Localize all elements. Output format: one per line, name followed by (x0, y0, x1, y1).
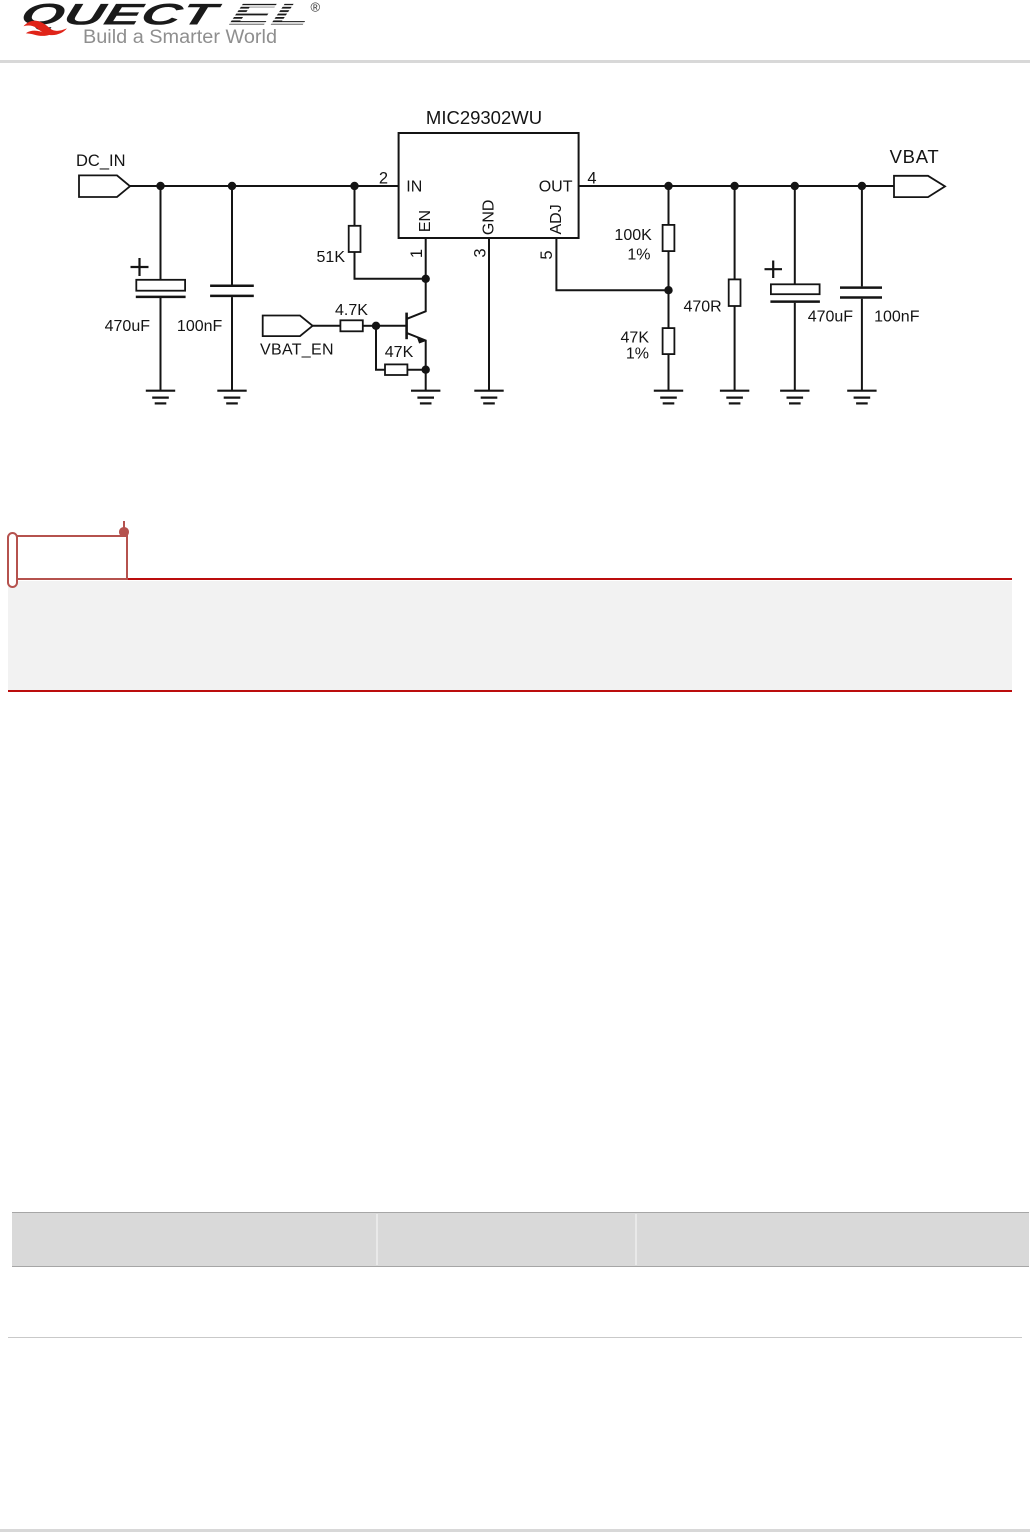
grey band (8, 581, 1012, 690)
svg-text:51K: 51K (317, 249, 346, 266)
wire main input net (130, 185, 399, 187)
svg-text:47K: 47K (621, 330, 650, 347)
resistor R1 51K (317, 186, 426, 279)
resistor R6 470R (683, 186, 740, 390)
svg-text:ADJ: ADJ (548, 204, 565, 234)
resistor R5 47K 1% (621, 290, 675, 390)
pin number 2 (379, 170, 388, 188)
port DC_IN (76, 152, 130, 197)
op-amp U1 MIC29302WU body (399, 107, 579, 238)
svg-text:5: 5 (538, 250, 556, 259)
ground (654, 391, 683, 404)
svg-text:3: 3 (472, 248, 490, 257)
node base junction (372, 322, 380, 330)
thin rule (8, 1337, 1022, 1338)
capacitor C2 100nF (177, 186, 254, 390)
ground (146, 391, 175, 404)
wire output net (579, 185, 894, 187)
ground (847, 391, 876, 404)
svg-text:DC_IN: DC_IN (76, 152, 126, 170)
svg-text:IN: IN (406, 178, 422, 195)
node junction dots output net (664, 182, 866, 190)
svg-text:VBAT_EN: VBAT_EN (260, 342, 334, 359)
svg-text:OUT: OUT (539, 178, 573, 195)
wire EN pin (425, 238, 427, 279)
capacitor C3 470uF (765, 186, 854, 390)
node emitter junction (422, 366, 430, 374)
note tab capsule (7, 532, 18, 588)
svg-text:470R: 470R (683, 299, 721, 316)
wire ADJ pin (556, 238, 668, 290)
node junction dots input net (156, 182, 358, 190)
ground (720, 391, 749, 404)
transistor Q1 (376, 279, 426, 370)
svg-text:100nF: 100nF (874, 309, 920, 326)
note pin head (119, 527, 129, 537)
pin number 4 (587, 170, 596, 188)
pin number 3 (472, 248, 490, 257)
svg-text:MIC29302WU: MIC29302WU (426, 107, 542, 128)
svg-text:1: 1 (408, 249, 426, 258)
header rule (0, 60, 1030, 63)
svg-text:EN: EN (417, 210, 434, 232)
note tab (9, 535, 128, 581)
node ADJ divider junction (664, 286, 672, 294)
svg-text:2: 2 (379, 170, 388, 188)
ground (474, 391, 503, 404)
ground (217, 391, 246, 404)
svg-text:1%: 1% (626, 346, 649, 363)
table header row (12, 1212, 1029, 1267)
ground (780, 391, 809, 404)
port VBAT (890, 146, 945, 197)
Quectel logo (0, 0, 360, 60)
note pin stem (123, 521, 125, 530)
svg-text:100nF: 100nF (177, 318, 223, 335)
svg-text:1%: 1% (627, 247, 650, 264)
red top rule (128, 578, 1012, 580)
svg-text:100K: 100K (614, 227, 652, 244)
ground (411, 391, 440, 404)
resistor R3 47K (376, 326, 426, 375)
capacitor C4 100nF (840, 186, 920, 390)
svg-text:470uF: 470uF (808, 309, 854, 326)
svg-text:47K: 47K (385, 344, 414, 361)
node EN junction (422, 275, 430, 283)
red bottom rule (8, 690, 1012, 692)
svg-text:VBAT: VBAT (890, 146, 940, 167)
pin number 5 (538, 250, 556, 259)
svg-text:GND: GND (481, 200, 498, 236)
svg-text:4.7K: 4.7K (335, 302, 368, 319)
port VBAT_EN (260, 316, 334, 359)
wire emitter to ground (425, 370, 427, 390)
wire GND pin (488, 238, 490, 390)
pin number 1 (408, 249, 426, 258)
resistor R4 100K (614, 186, 674, 290)
svg-text:470uF: 470uF (105, 318, 151, 335)
footer rule (0, 1529, 1030, 1532)
resistor R2 4.7K (313, 302, 376, 331)
svg-text:4: 4 (587, 170, 596, 188)
capacitor C1 470uF (105, 186, 186, 390)
